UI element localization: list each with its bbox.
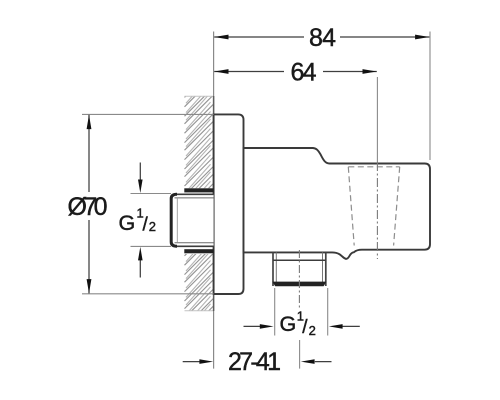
connector thick left edge (171, 194, 177, 246)
dimension 84 (214, 36, 429, 38)
svg-text:2: 2 (149, 219, 156, 234)
label left G1/2 (119, 206, 157, 236)
label bottom G1/2 (280, 308, 316, 338)
rear G1/2 connector box (171, 194, 213, 246)
svg-text:G: G (280, 312, 297, 336)
wall front line / extension line (213, 32, 215, 369)
dimension left G1/2 extension lines (131, 193, 172, 195)
bottom G1/2 outlet stub (272, 252, 274, 286)
dimension D70 line (88, 115, 90, 192)
svg-text:G: G (119, 211, 136, 235)
svg-text:Ø70: Ø70 (68, 193, 108, 221)
rear connector dark thread bars in wall (184, 188, 213, 192)
wall hatching (185, 66, 214, 344)
stub centerline (298, 250, 300, 309)
dimension bottom G1/2 extension lines (274, 288, 276, 336)
flange escutcheon (D70 wall plate) (214, 114, 244, 294)
wall surface segment (darker) (213, 96, 215, 311)
84 extension line right (429, 32, 431, 161)
connector thread inner lines (175, 197, 214, 199)
svg-text:64: 64 (291, 58, 317, 86)
svg-text:84: 84 (309, 24, 336, 52)
wall hatch bottom boundary (185, 310, 214, 312)
svg-text:27-41: 27-41 (228, 348, 281, 376)
holder socket centerline / 64 extension (376, 77, 378, 162)
wall hatch top boundary (185, 95, 214, 97)
dimension 27-41 (183, 361, 200, 363)
dimension bottom G1/2 arrows (244, 325, 261, 327)
main body with handshower holder (244, 148, 431, 259)
svg-text:2: 2 (309, 323, 316, 338)
svg-text:/: / (302, 317, 308, 338)
dimension left G1/2 arrows (139, 163, 141, 182)
dimension 64 (214, 71, 377, 73)
svg-text:/: / (143, 215, 149, 236)
stub dark chamfered end bar (272, 282, 326, 287)
holder hidden cone (dashed) (348, 167, 399, 246)
dimension D70 extension lines (82, 113, 214, 115)
